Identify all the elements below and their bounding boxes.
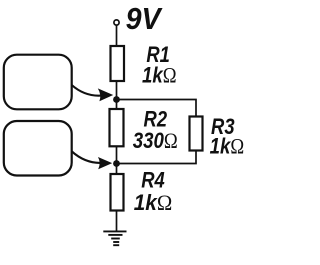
- wire: R3 bottom down and left to node B: [117, 151, 197, 164]
- callout box 2: [4, 121, 72, 176]
- callout box 1: [4, 55, 72, 110]
- callout arrow 1 shaft to node A: [72, 85, 101, 96]
- wire: R4 bottom to ground: [116, 211, 118, 232]
- svg-text:330Ω: 330Ω: [133, 128, 178, 153]
- wire: node B to R4 top: [116, 164, 118, 175]
- wire: R2 bottom to node B: [116, 146, 118, 163]
- svg-text:9V: 9V: [126, 1, 163, 36]
- resistor R4: [111, 174, 124, 211]
- callout arrow 1 head: [98, 88, 113, 101]
- resistor R1: [111, 46, 125, 81]
- svg-text:1kΩ: 1kΩ: [142, 63, 177, 88]
- resistor R2: [110, 109, 124, 146]
- node B junction dot: [113, 160, 120, 167]
- callout arrow 2 shaft to node B: [72, 151, 100, 163]
- wire: node A to R2 top: [116, 100, 118, 110]
- wire: node A right and down to R3 top: [117, 100, 197, 117]
- svg-text:1kΩ: 1kΩ: [134, 190, 173, 215]
- node A junction dot: [113, 96, 120, 103]
- wire: R1 bottom to node A: [116, 81, 118, 100]
- svg-text:R4: R4: [141, 168, 165, 193]
- wire: terminal to R1: [116, 26, 118, 47]
- resistor R3: [190, 117, 203, 151]
- callout arrow 2 head: [98, 157, 112, 169]
- ground: [103, 231, 126, 245]
- 9V supply terminal: [114, 20, 119, 25]
- svg-text:1kΩ: 1kΩ: [210, 134, 245, 159]
